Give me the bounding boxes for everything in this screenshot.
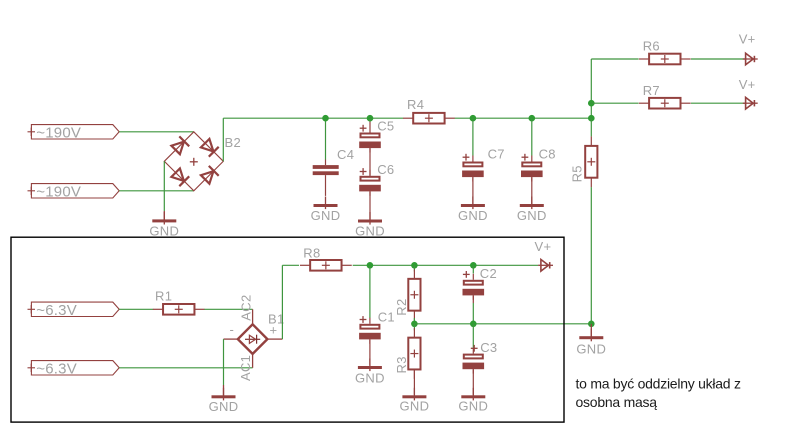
svg-text:R7: R7 xyxy=(643,83,660,98)
svg-text:~190V: ~190V xyxy=(36,184,81,201)
svg-text:-: - xyxy=(230,322,235,337)
svg-text:+: + xyxy=(270,323,278,338)
wire xyxy=(369,265,371,318)
svg-text:GND: GND xyxy=(355,223,385,238)
enclosure box (separate circuit) xyxy=(11,237,564,422)
wire xyxy=(413,265,415,271)
svg-text:C5: C5 xyxy=(377,118,394,133)
svg-text:AC1: AC1 xyxy=(238,355,253,381)
svg-text:GND: GND xyxy=(576,341,606,356)
svg-text:GND: GND xyxy=(355,371,385,386)
svg-text:R8: R8 xyxy=(303,246,320,261)
pin xyxy=(531,177,533,205)
wire xyxy=(472,303,474,324)
wire (main rail) xyxy=(223,117,403,119)
pin xyxy=(472,369,474,395)
ground xyxy=(402,388,426,401)
wire xyxy=(691,58,746,60)
wire xyxy=(119,131,194,133)
ground xyxy=(520,197,544,210)
supply V+ xyxy=(538,260,553,272)
junction xyxy=(322,115,329,122)
resistor R8 xyxy=(300,260,352,271)
svg-text:GND: GND xyxy=(209,399,239,414)
ground xyxy=(461,197,485,210)
wire xyxy=(119,190,194,192)
junction xyxy=(588,100,595,107)
resistor R6 xyxy=(639,54,691,65)
junction xyxy=(411,321,418,328)
svg-text:V+: V+ xyxy=(739,32,756,47)
svg-text:V+: V+ xyxy=(739,77,756,92)
pin xyxy=(472,177,474,205)
wire xyxy=(223,339,225,385)
junction xyxy=(470,115,477,122)
junction xyxy=(588,321,595,328)
net tag ~6.3V xyxy=(28,302,120,316)
junction xyxy=(367,115,374,122)
resistor R4 xyxy=(403,113,455,124)
wire xyxy=(222,118,224,161)
wire xyxy=(119,367,252,369)
wire xyxy=(591,58,638,60)
svg-text:C4: C4 xyxy=(337,147,354,162)
junction xyxy=(470,321,477,328)
net tag ~190V xyxy=(28,184,120,198)
wire xyxy=(413,324,415,331)
wire (mid gnd line) xyxy=(414,323,591,325)
resistor R3 xyxy=(408,328,420,379)
svg-text:V+: V+ xyxy=(535,239,552,254)
svg-text:R5: R5 xyxy=(570,165,585,182)
svg-text:R1: R1 xyxy=(155,288,172,303)
svg-text:osobna masą: osobna masą xyxy=(576,394,658,410)
wire (main rail) xyxy=(455,117,592,119)
capacitor C1 xyxy=(359,316,381,344)
svg-text:GND: GND xyxy=(311,208,341,223)
resistor R7 xyxy=(639,98,691,109)
pin xyxy=(369,191,371,220)
supply V+ xyxy=(743,53,758,65)
svg-text:C6: C6 xyxy=(377,162,394,177)
svg-text:GND: GND xyxy=(149,224,179,239)
wire xyxy=(472,265,474,273)
junction xyxy=(588,115,595,122)
svg-text:GND: GND xyxy=(400,398,430,413)
bridge rectifier B2 xyxy=(164,132,223,191)
wire xyxy=(281,265,283,339)
wire xyxy=(472,324,474,348)
svg-text:~6.3V: ~6.3V xyxy=(36,302,77,319)
wire xyxy=(531,118,533,155)
svg-text:~190V: ~190V xyxy=(36,125,81,142)
svg-text:~6.3V: ~6.3V xyxy=(36,361,77,378)
svg-text:C8: C8 xyxy=(539,147,556,162)
net tag ~190V xyxy=(28,125,120,139)
ground xyxy=(579,329,603,342)
capacitor C3 xyxy=(463,345,485,374)
svg-text:C7: C7 xyxy=(488,147,505,162)
junction xyxy=(367,262,374,269)
ground xyxy=(461,388,485,401)
capacitor C7 xyxy=(462,154,484,182)
wire xyxy=(590,118,592,136)
wire xyxy=(353,264,538,266)
svg-text:R2: R2 xyxy=(394,298,409,315)
pin xyxy=(369,148,371,176)
svg-text:to ma być oddzielny układ z: to ma być oddzielny układ z xyxy=(576,376,741,392)
capacitor C5 xyxy=(359,122,381,153)
resistor R1 xyxy=(153,304,205,315)
wire xyxy=(325,118,327,159)
ground xyxy=(358,359,382,372)
wire xyxy=(369,118,371,122)
svg-text:R4: R4 xyxy=(407,97,424,112)
bridge rectifier B1 xyxy=(224,309,283,368)
net tag ~6.3V xyxy=(28,361,120,375)
svg-text:GND: GND xyxy=(517,208,547,223)
svg-text:C3: C3 xyxy=(480,340,497,355)
wire xyxy=(413,318,415,324)
svg-text:B2: B2 xyxy=(225,135,242,150)
junction xyxy=(470,262,477,269)
wire xyxy=(119,308,153,310)
wire xyxy=(691,102,746,104)
svg-text:C1: C1 xyxy=(378,310,395,325)
wire xyxy=(590,59,592,118)
capacitor C4 xyxy=(313,160,339,196)
wire xyxy=(204,308,252,310)
pin xyxy=(163,211,165,220)
capacitor C6 xyxy=(359,168,381,196)
pin xyxy=(369,339,371,365)
junction xyxy=(411,262,418,269)
resistor R5 xyxy=(585,136,597,187)
ground xyxy=(358,212,382,225)
svg-text:AC2: AC2 xyxy=(239,294,254,320)
capacitor C2 xyxy=(463,271,485,300)
ground xyxy=(212,388,236,401)
wire xyxy=(591,102,638,104)
ground xyxy=(152,212,176,225)
svg-text:R3: R3 xyxy=(394,356,409,373)
svg-text:GND: GND xyxy=(458,398,488,413)
capacitor C8 xyxy=(521,154,543,182)
pin xyxy=(413,369,415,394)
pin xyxy=(472,295,474,303)
svg-text:GND: GND xyxy=(458,208,488,223)
supply V+ xyxy=(743,97,758,109)
wire xyxy=(472,118,474,155)
svg-text:C2: C2 xyxy=(480,266,497,281)
pin xyxy=(590,324,592,337)
wire xyxy=(163,161,165,211)
ground xyxy=(314,197,338,210)
svg-text:R6: R6 xyxy=(643,38,660,53)
pin xyxy=(223,385,225,396)
wire xyxy=(282,264,299,266)
wire xyxy=(590,187,592,324)
junction xyxy=(529,115,536,122)
resistor R2 xyxy=(408,269,420,320)
